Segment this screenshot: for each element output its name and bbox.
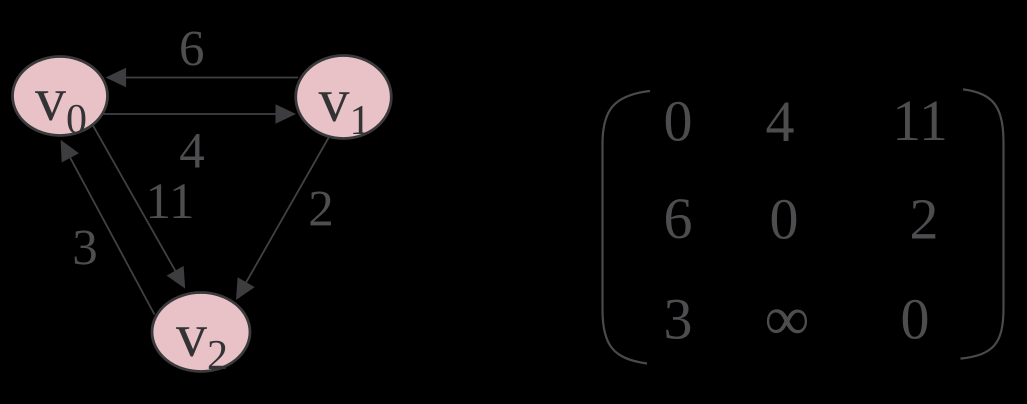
wire edge v2 to v0 (weight 3) bbox=[70, 158, 154, 315]
svg-text:2: 2 bbox=[910, 187, 939, 252]
svg-text:11: 11 bbox=[892, 88, 948, 153]
svg-text:3: 3 bbox=[72, 221, 98, 277]
arrowhead into v2 (edge weight 2) bbox=[236, 277, 255, 300]
svg-text:6: 6 bbox=[179, 21, 205, 77]
svg-text:4: 4 bbox=[766, 89, 795, 154]
arrowhead into v2 (edge weight 11) bbox=[167, 266, 186, 289]
arrowhead into v0 (edge weight 3) bbox=[61, 140, 79, 163]
wire edge v0 to v1 (weight 4) bbox=[101, 113, 277, 115]
node v1 ellipse bbox=[296, 56, 392, 139]
arrowhead into v1 (edge weight 4) bbox=[276, 104, 297, 124]
arrowhead into v0 (edge weight 6) bbox=[106, 68, 127, 88]
svg-text:3: 3 bbox=[664, 287, 693, 352]
wire edge v1 to v0 (weight 6) bbox=[124, 77, 298, 79]
node v2 ellipse bbox=[152, 293, 250, 372]
svg-text:11: 11 bbox=[145, 174, 194, 230]
wire edge v0 to v2 (weight 11) bbox=[93, 126, 176, 272]
svg-text:4: 4 bbox=[179, 124, 205, 180]
svg-text:0: 0 bbox=[770, 187, 799, 252]
svg-text:6: 6 bbox=[664, 186, 693, 251]
wire edge v1 to v2 (weight 2) bbox=[246, 137, 329, 282]
matrix left bracket bbox=[603, 91, 651, 364]
node v0 ellipse bbox=[13, 57, 108, 136]
svg-text:∞: ∞ bbox=[765, 284, 810, 354]
matrix right bracket bbox=[961, 89, 1004, 358]
svg-text:0: 0 bbox=[901, 287, 930, 352]
svg-text:0: 0 bbox=[664, 89, 693, 154]
svg-text:2: 2 bbox=[308, 182, 334, 238]
